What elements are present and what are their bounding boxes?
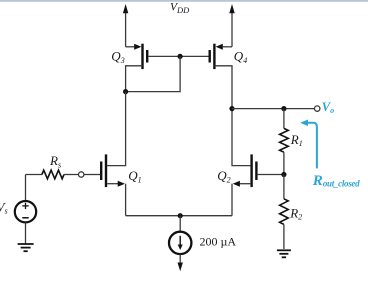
wire common source rail xyxy=(126,215,232,217)
junction dot feedback node xyxy=(281,172,286,177)
input terminal circle at Q1 gate xyxy=(79,172,84,177)
top border frame line xyxy=(0,0,368,2)
source Vs xyxy=(15,175,36,244)
label R2 xyxy=(289,205,302,221)
svg-text:R2: R2 xyxy=(289,205,302,221)
ground at Vs xyxy=(18,244,34,251)
current source 200uA xyxy=(169,216,191,272)
resistor R1 xyxy=(280,109,289,175)
VDD arrow right xyxy=(229,4,234,47)
svg-text:VDD: VDD xyxy=(170,2,190,15)
output terminal circle Vo xyxy=(315,106,320,111)
wire output node xyxy=(232,108,315,110)
resistor Rs xyxy=(26,170,79,179)
VDD net label xyxy=(170,2,190,15)
label Q1 xyxy=(128,168,141,184)
svg-text:200 µA: 200 µA xyxy=(200,235,237,249)
svg-text:Q4: Q4 xyxy=(234,49,247,65)
transistor Q4 (PMOS) xyxy=(180,44,232,109)
label Q2 xyxy=(217,168,230,184)
svg-text:Rout_closed: Rout_closed xyxy=(312,173,360,189)
label Q4 xyxy=(234,49,247,65)
svg-text:Rs: Rs xyxy=(49,153,61,169)
label Vs xyxy=(0,199,8,215)
label Q3 xyxy=(111,49,124,65)
svg-text:Vo: Vo xyxy=(322,100,334,115)
wire diode connection Q3 gate to drain xyxy=(126,56,181,91)
svg-text:Q2: Q2 xyxy=(217,168,230,184)
resistor R2 xyxy=(280,175,289,250)
label Rout_closed xyxy=(312,173,360,189)
junction dot Q3 drain node xyxy=(123,89,128,94)
label 200 uA xyxy=(200,235,237,249)
junction dot output node at Q4/Q2 drains xyxy=(229,106,234,111)
gate node junction dot xyxy=(178,54,183,59)
transistor Q3 (PMOS, diode-connected) xyxy=(126,44,181,92)
label Rs xyxy=(49,153,61,169)
svg-text:R1: R1 xyxy=(290,132,303,148)
junction dot R1 top xyxy=(281,106,286,111)
svg-text:Q3: Q3 xyxy=(111,49,124,65)
transistor Q2 (NMOS) xyxy=(232,109,284,216)
transistor Q1 (NMOS) xyxy=(84,154,126,215)
svg-text:Vs: Vs xyxy=(0,199,8,215)
label Vo xyxy=(322,100,334,115)
junction dot tail node xyxy=(178,213,183,218)
VDD arrow left xyxy=(123,4,128,47)
label R1 xyxy=(290,132,303,148)
svg-text:Q1: Q1 xyxy=(128,168,141,184)
ground at R2 xyxy=(277,250,291,257)
annotation arrow Rout_closed xyxy=(300,120,317,169)
wire Q3 drain to Q1 drain xyxy=(107,92,125,166)
